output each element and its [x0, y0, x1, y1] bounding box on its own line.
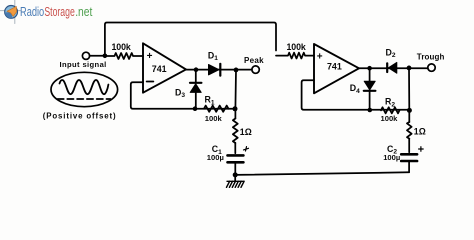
diode D4 (cathode down, below U2 output node) [364, 68, 376, 110]
svg-text:100k: 100k [287, 42, 306, 52]
wire ground bus [235, 172, 409, 175]
svg-text:Storage: Storage [44, 5, 74, 19]
svg-text:Peak: Peak [244, 56, 264, 65]
svg-text:+: + [147, 51, 153, 62]
node U2 output junction [367, 66, 372, 71]
wire U2 inverting feedback (left drop to bottom run) [302, 80, 410, 110]
Peak output terminal [252, 66, 259, 73]
watermark logo RadioStorage.net [0, 0, 93, 24]
wire node A up and top rail to op-amp U2 branch [105, 23, 276, 56]
svg-text:1Ω: 1Ω [240, 127, 252, 137]
resistor 1 ohm (right) [407, 122, 412, 139]
diode D2 (cathode toward U2 output) [387, 62, 397, 73]
svg-text:741: 741 [327, 61, 342, 71]
svg-text:100k: 100k [381, 114, 399, 123]
node ground bus left [233, 172, 238, 177]
polarity + mark C2 [419, 147, 424, 152]
diode D3 (cathode up, below U1 output node) [190, 70, 201, 109]
Trough output terminal [428, 64, 435, 71]
svg-text:Trough: Trough [417, 53, 445, 62]
svg-text:1Ω: 1Ω [414, 127, 426, 137]
node A (input junction) [103, 54, 108, 59]
svg-text:741: 741 [152, 64, 167, 74]
svg-text:R2: R2 [385, 97, 395, 109]
ground symbol [227, 175, 245, 187]
wire U2 output to Trough terminal [359, 67, 428, 69]
dashed offset line [58, 98, 111, 100]
source waveform annotation (ellipse) [51, 72, 118, 106]
node after D2 (trough node) [407, 66, 412, 71]
sine wave [60, 80, 109, 94]
resistor 100k (input of U2) [276, 53, 314, 59]
svg-text:D3: D3 [175, 87, 185, 99]
op-amp U1 (741) [143, 43, 186, 92]
wire input terminal to node A [90, 55, 105, 57]
node D3 / feedback junction [193, 106, 198, 111]
svg-text:Input signal: Input signal [60, 60, 107, 69]
svg-text:+: + [317, 51, 323, 62]
resistor 100k (input of U1) [105, 53, 143, 59]
diode D1 [209, 64, 221, 76]
input terminal [82, 52, 89, 59]
svg-text:Radio: Radio [20, 5, 44, 19]
node D4 / feedback junction [368, 108, 373, 113]
svg-text:(Positive offset): (Positive offset) [43, 112, 117, 121]
resistor 1 ohm (left) [233, 119, 238, 144]
svg-text:.net: .net [75, 5, 93, 19]
svg-text:100µ: 100µ [207, 153, 224, 162]
svg-text:100µ: 100µ [383, 153, 400, 162]
svg-text:D1: D1 [208, 50, 218, 62]
wire U1 output to Peak terminal [186, 69, 252, 71]
svg-text:100k: 100k [205, 114, 223, 123]
svg-text:R1: R1 [205, 95, 215, 107]
node U1 output junction [194, 67, 199, 72]
op-amp U2 (741) [314, 44, 359, 93]
polarity + mark C1 [244, 147, 249, 151]
node R1 right / peak hold junction [233, 106, 238, 111]
svg-text:100k: 100k [112, 42, 131, 52]
resistor R2 100k [381, 107, 400, 113]
wire trough node down through components to ground bus [408, 68, 410, 172]
node after D1 (peak node) [234, 68, 239, 73]
svg-text:D4: D4 [350, 83, 360, 95]
wire peak node down through components to ground bus [234, 70, 237, 175]
wire U1 inverting feedback (left drop to bottom run) [131, 82, 236, 109]
node R2 right / trough hold junction [407, 108, 412, 113]
capacitor C1 100u [228, 155, 244, 162]
resistor R1 100k [204, 106, 229, 112]
svg-text:D2: D2 [386, 47, 396, 59]
capacitor C2 100u [401, 154, 417, 161]
